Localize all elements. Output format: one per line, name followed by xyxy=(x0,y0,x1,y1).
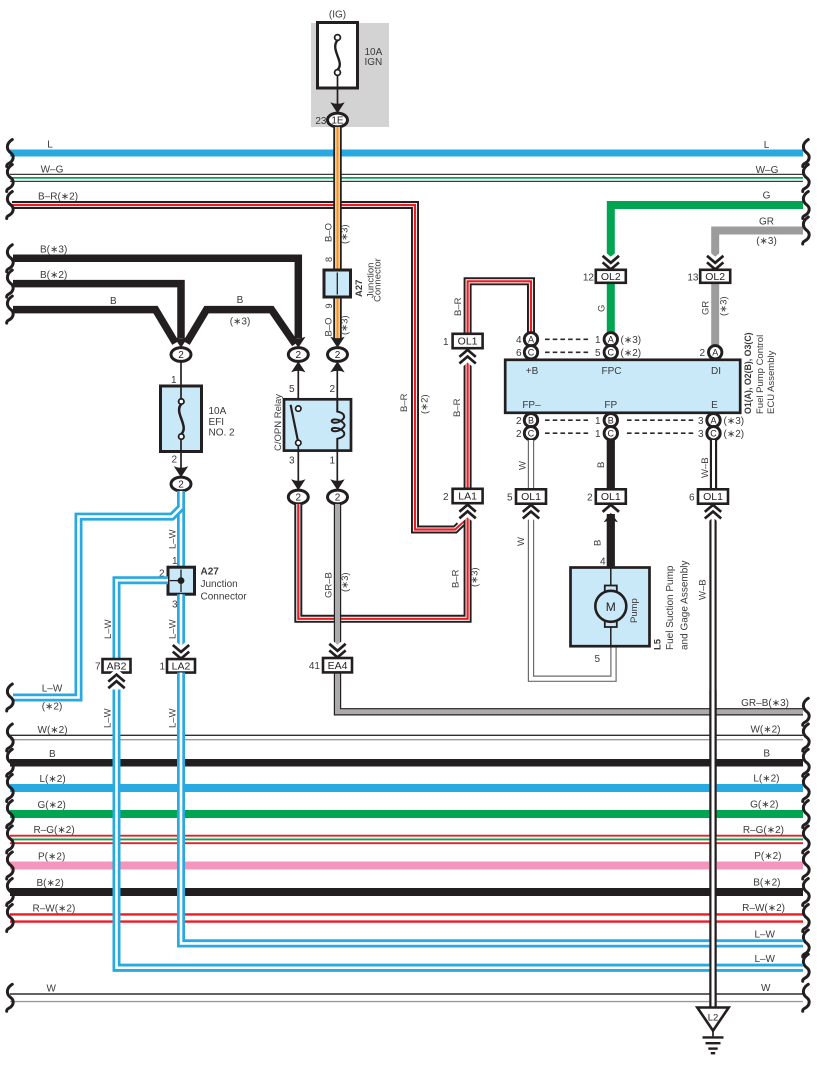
arrow B-O into oval xyxy=(330,337,344,348)
svg-text:(∗2): (∗2) xyxy=(621,348,642,359)
node oval 2 (L-W top) xyxy=(171,477,191,491)
svg-text:G(∗2): G(∗2) xyxy=(38,800,66,811)
svg-text:L: L xyxy=(47,140,53,151)
svg-text:W–B: W–B xyxy=(700,457,711,478)
svg-text:G(∗2): G(∗2) xyxy=(750,800,778,811)
node oval 2 (relay pin5 top) xyxy=(288,348,308,362)
svg-text:2: 2 xyxy=(699,348,705,359)
svg-text:Pump: Pump xyxy=(629,598,640,623)
svg-text:1: 1 xyxy=(443,337,449,348)
svg-text:EFI: EFI xyxy=(209,417,225,428)
wire B-R LA1 to OL1 to ECU +B xyxy=(468,281,531,489)
connector 2 OL1 xyxy=(603,505,619,512)
svg-text:B: B xyxy=(110,296,117,307)
svg-text:L2: L2 xyxy=(708,1013,719,1024)
arrow B(*2) into oval xyxy=(174,337,188,348)
svg-text:3: 3 xyxy=(698,429,704,440)
svg-text:L: L xyxy=(764,140,770,151)
svg-text:4: 4 xyxy=(516,335,522,346)
svg-text:5: 5 xyxy=(594,654,600,665)
svg-text:B: B xyxy=(528,416,534,426)
svg-text:FP–: FP– xyxy=(522,400,541,411)
svg-text:B–R(∗2): B–R(∗2) xyxy=(38,192,78,203)
wire L-W vertical overlay AB2 xyxy=(117,700,804,968)
svg-text:2: 2 xyxy=(178,350,184,361)
svg-text:(∗3): (∗3) xyxy=(756,236,777,247)
svg-text:C: C xyxy=(710,429,717,439)
svg-text:5: 5 xyxy=(595,348,601,359)
svg-text:B(∗3): B(∗3) xyxy=(40,245,67,256)
svg-text:3: 3 xyxy=(698,416,704,427)
node oval 2 (relay pin2 top) xyxy=(328,348,348,362)
wire B(*2) xyxy=(13,284,181,338)
svg-text:(∗2): (∗2) xyxy=(42,702,63,713)
wire L-W vertical overlay LA2 xyxy=(181,710,803,943)
svg-text:C: C xyxy=(608,429,615,439)
svg-text:2: 2 xyxy=(335,493,341,504)
svg-text:O1(A), O2(B), O3(C): O1(A), O2(B), O3(C) xyxy=(743,332,753,414)
svg-text:NO. 2: NO. 2 xyxy=(209,428,236,439)
svg-text:1: 1 xyxy=(172,556,178,567)
svg-text:A27: A27 xyxy=(201,567,220,578)
fuse 10A IGN xyxy=(318,23,358,89)
svg-text:E: E xyxy=(711,400,718,411)
svg-text:R–G(∗2): R–G(∗2) xyxy=(743,825,784,836)
svg-text:5: 5 xyxy=(507,493,513,504)
svg-text:(∗3): (∗3) xyxy=(470,567,481,587)
svg-text:1: 1 xyxy=(329,456,335,467)
svg-text:R–W(∗2): R–W(∗2) xyxy=(33,904,76,915)
svg-text:B–R: B–R xyxy=(451,569,462,588)
svg-text:B(∗2): B(∗2) xyxy=(40,270,67,281)
svg-text:L–W: L–W xyxy=(168,619,179,639)
svg-text:9: 9 xyxy=(324,303,334,308)
svg-text:G: G xyxy=(763,191,771,202)
svg-text:7: 7 xyxy=(95,662,101,673)
wire oval to EFI fuse xyxy=(180,362,182,387)
svg-text:2: 2 xyxy=(516,429,522,440)
svg-text:Junction: Junction xyxy=(201,579,238,590)
svg-text:ECU Assembly: ECU Assembly xyxy=(766,350,777,414)
svg-text:A27: A27 xyxy=(354,280,365,297)
svg-text:Fuel Suction Pump: Fuel Suction Pump xyxy=(665,565,676,650)
svg-text:L–W: L–W xyxy=(168,708,179,728)
bus GR xyxy=(715,231,803,257)
svg-text:3: 3 xyxy=(289,456,295,467)
svg-text:2: 2 xyxy=(443,492,449,503)
svg-text:1: 1 xyxy=(595,335,601,346)
svg-text:W–G: W–G xyxy=(41,165,64,176)
svg-text:1: 1 xyxy=(595,429,601,440)
svg-text:(∗3): (∗3) xyxy=(340,315,351,335)
svg-text:B(∗2): B(∗2) xyxy=(37,878,64,889)
svg-text:IGN: IGN xyxy=(365,57,383,68)
svg-text:6: 6 xyxy=(516,348,522,359)
bus R-W(*2) xyxy=(10,913,803,923)
svg-text:Fuel Pump Control: Fuel Pump Control xyxy=(755,335,766,414)
connector 5 OL1 xyxy=(523,512,539,519)
svg-text:GR: GR xyxy=(701,301,712,315)
svg-text:FP: FP xyxy=(604,400,617,411)
svg-text:2: 2 xyxy=(296,350,302,361)
svg-text:P(∗2): P(∗2) xyxy=(38,852,65,863)
svg-text:FPC: FPC xyxy=(602,366,622,377)
bus R-G(*2) xyxy=(10,835,803,844)
svg-text:W: W xyxy=(516,537,527,546)
wire B-R from relay pin3 to LA1 xyxy=(298,504,467,619)
svg-text:(∗3): (∗3) xyxy=(719,296,730,316)
connector 2 LA1 xyxy=(459,511,475,518)
wire G to 12 OL2 xyxy=(607,283,615,334)
svg-text:C: C xyxy=(528,348,535,358)
wire GR-B relay pin1 to EA4 to bus xyxy=(334,504,341,658)
svg-text:OL1: OL1 xyxy=(601,491,621,503)
svg-text:L–W: L–W xyxy=(754,930,775,941)
svg-text:GR–B: GR–B xyxy=(324,572,335,598)
relay pin3 wire down xyxy=(297,451,299,481)
svg-text:1: 1 xyxy=(595,416,601,427)
bus W-G xyxy=(10,174,803,182)
svg-text:(∗2): (∗2) xyxy=(420,394,431,414)
svg-text:Connector: Connector xyxy=(373,258,384,302)
wire B-O from 1E xyxy=(333,127,342,270)
svg-text:A: A xyxy=(528,335,534,345)
svg-text:(IG): (IG) xyxy=(329,10,346,21)
svg-text:W(∗2): W(∗2) xyxy=(750,725,780,736)
bus W xyxy=(10,993,803,995)
connector 12 OL2 xyxy=(603,256,619,263)
bus B(*2) xyxy=(10,888,803,896)
svg-text:OL1: OL1 xyxy=(521,491,541,503)
svg-text:B: B xyxy=(49,749,56,760)
bus P(*2) xyxy=(10,862,803,870)
svg-text:2: 2 xyxy=(516,416,522,427)
svg-text:6: 6 xyxy=(689,493,695,504)
wire L-W main from oval to A27 xyxy=(177,491,185,568)
wire W-B from ECU E to 6 OL1 to ground xyxy=(710,440,717,490)
svg-text:L–W: L–W xyxy=(42,684,63,695)
node oval 2 (EFI fuse top) xyxy=(171,348,191,362)
wire W-B vertical overlay xyxy=(709,690,716,1008)
arrow into oval xyxy=(174,466,188,477)
svg-text:M: M xyxy=(606,600,616,614)
svg-text:(∗3): (∗3) xyxy=(230,317,251,328)
svg-text:2: 2 xyxy=(171,455,177,466)
svg-text:B: B xyxy=(593,540,604,546)
pump motor M xyxy=(605,586,617,592)
arrow into 1E xyxy=(330,102,344,113)
svg-text:(∗3): (∗3) xyxy=(621,335,642,346)
svg-text:B(∗2): B(∗2) xyxy=(753,878,780,889)
svg-text:B–R: B–R xyxy=(453,297,464,316)
connector 1 OL1 xyxy=(459,357,475,364)
fuse 10A EFI NO.2 xyxy=(161,386,202,452)
bus W(*2) xyxy=(10,734,803,736)
svg-text:1: 1 xyxy=(159,662,165,673)
svg-text:W: W xyxy=(518,461,529,470)
svg-text:and Gage Assembly: and Gage Assembly xyxy=(680,561,691,651)
svg-text:12: 12 xyxy=(583,273,595,284)
wire GR to 13 OL2 xyxy=(711,283,719,347)
connector 41 EA4 xyxy=(329,644,345,651)
svg-text:R–G(∗2): R–G(∗2) xyxy=(34,825,75,836)
svg-text:DI: DI xyxy=(711,366,721,377)
svg-text:B: B xyxy=(237,295,244,306)
wire B-R(*2) bus and drop to LA1 xyxy=(12,205,468,530)
wire B(*3) xyxy=(13,258,298,338)
connector 6 OL1 xyxy=(705,512,721,519)
svg-text:LA2: LA2 xyxy=(172,661,191,673)
svg-text:EA4: EA4 xyxy=(328,660,348,672)
svg-text:(∗3): (∗3) xyxy=(340,224,351,244)
svg-text:2: 2 xyxy=(178,480,184,491)
svg-text:L–W: L–W xyxy=(168,529,179,549)
svg-text:2: 2 xyxy=(335,350,341,361)
svg-text:2: 2 xyxy=(329,384,335,395)
relay coil xyxy=(332,399,345,450)
relay switch contact xyxy=(291,405,298,441)
svg-text:C: C xyxy=(608,348,615,358)
svg-text:C/OPN Relay: C/OPN Relay xyxy=(273,394,284,451)
svg-text:B–O: B–O xyxy=(323,223,334,242)
wire L-W A27 to LA2 xyxy=(177,594,185,645)
bus L(*2) xyxy=(10,784,803,792)
svg-text:10A: 10A xyxy=(209,406,227,417)
wire W from ECU FP- to 5 OL1 and pump pin5 xyxy=(528,440,534,490)
wire B from ECU FP to 2 OL1 to pump xyxy=(607,440,615,490)
svg-text:OL2: OL2 xyxy=(705,271,725,283)
wire L-W below AB2 to bus xyxy=(117,690,804,968)
svg-text:B: B xyxy=(596,462,607,468)
svg-text:(∗2): (∗2) xyxy=(724,429,745,440)
wire L-W branch to AB2 xyxy=(117,580,169,659)
svg-text:23: 23 xyxy=(315,116,327,127)
svg-text:C: C xyxy=(528,429,535,439)
bus G xyxy=(611,205,803,257)
svg-text:4: 4 xyxy=(600,557,606,568)
svg-text:+B: +B xyxy=(526,366,539,377)
svg-text:W–G: W–G xyxy=(756,165,779,176)
svg-text:W–B: W–B xyxy=(698,579,709,600)
svg-text:1E: 1E xyxy=(331,116,344,127)
svg-text:LA1: LA1 xyxy=(458,491,477,503)
svg-text:13: 13 xyxy=(687,273,699,284)
connector 1 LA2 xyxy=(173,645,189,652)
svg-text:GR–B(∗3): GR–B(∗3) xyxy=(741,698,789,709)
fuse block shading xyxy=(311,23,389,127)
arrow B(*3) into oval xyxy=(291,337,305,348)
bus B xyxy=(10,759,803,767)
svg-text:G: G xyxy=(597,305,608,312)
svg-text:W: W xyxy=(47,984,57,995)
svg-text:OL2: OL2 xyxy=(601,271,621,283)
svg-text:2: 2 xyxy=(296,493,302,504)
svg-text:OL1: OL1 xyxy=(703,491,723,503)
svg-text:2: 2 xyxy=(587,493,593,504)
node oval 2 (GR-B top) xyxy=(328,490,348,504)
svg-text:8: 8 xyxy=(324,257,334,262)
node oval 2 (B-R top) xyxy=(288,490,308,504)
svg-text:B: B xyxy=(608,416,614,426)
bus L xyxy=(10,150,803,157)
ECU top pins xyxy=(545,338,589,340)
wire L-W below LA2 to bus xyxy=(181,673,803,944)
svg-text:A: A xyxy=(608,335,614,345)
svg-text:41: 41 xyxy=(309,661,321,672)
svg-text:L5: L5 xyxy=(653,638,664,650)
arrow relay pin5 wire up xyxy=(291,361,305,372)
fuel suction pump assembly L5 xyxy=(571,568,650,647)
svg-text:L–W: L–W xyxy=(103,708,114,728)
svg-text:OL1: OL1 xyxy=(458,336,478,348)
svg-text:R–W(∗2): R–W(∗2) xyxy=(742,903,785,914)
svg-text:P(∗2): P(∗2) xyxy=(754,851,781,862)
svg-text:A: A xyxy=(712,348,718,358)
svg-text:W: W xyxy=(761,983,771,994)
wire fuse IGN to 1E xyxy=(337,75,339,104)
svg-text:1: 1 xyxy=(171,375,177,386)
svg-text:B–O: B–O xyxy=(323,317,334,336)
svg-text:Connector: Connector xyxy=(201,592,248,603)
wire EFI fuse to oval xyxy=(180,451,182,468)
svg-text:L–W: L–W xyxy=(103,619,114,639)
svg-text:(∗3): (∗3) xyxy=(340,572,351,592)
ECU Fuel Pump Control assembly xyxy=(505,360,740,413)
svg-text:W(∗2): W(∗2) xyxy=(38,725,68,736)
wire B xyxy=(13,310,176,343)
ground L2 xyxy=(697,1008,728,1031)
svg-text:5: 5 xyxy=(289,384,295,395)
svg-text:A: A xyxy=(710,416,716,426)
svg-text:B–R: B–R xyxy=(399,393,410,412)
arrow relay pin2 wire up xyxy=(330,361,344,372)
bus G(*2) xyxy=(10,810,803,818)
svg-text:GR: GR xyxy=(759,217,774,228)
ECU bottom pins xyxy=(545,419,589,421)
svg-text:(∗3): (∗3) xyxy=(724,416,745,427)
svg-text:L(∗2): L(∗2) xyxy=(40,774,66,785)
svg-text:B–R: B–R xyxy=(452,398,463,417)
svg-text:L(∗2): L(∗2) xyxy=(753,774,779,785)
svg-text:B: B xyxy=(763,749,770,760)
connector 13 OL2 xyxy=(707,256,723,263)
svg-text:L–W: L–W xyxy=(754,954,775,965)
